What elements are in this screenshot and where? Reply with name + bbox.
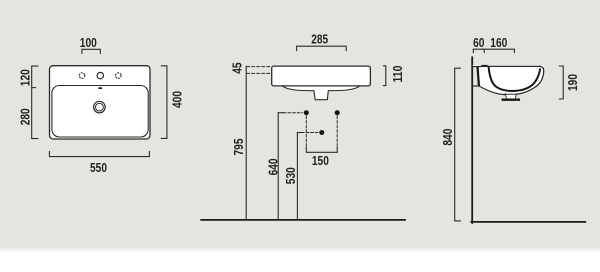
svg-text:110: 110 (390, 66, 405, 83)
dimension 60 label (473, 35, 484, 50)
dimension 120 label (18, 69, 33, 86)
dimension 640 label (265, 158, 280, 175)
side basin underside left (479, 86, 504, 95)
dimension 285 label (311, 32, 328, 47)
right fixing bolt (335, 110, 340, 115)
dimension 100 label (80, 35, 97, 50)
svg-text:550: 550 (90, 160, 107, 175)
dimension 530 label (283, 167, 298, 184)
dimension 550 bracket (49, 152, 149, 157)
dimension 150 label (312, 153, 329, 168)
dimension 150 bracket (306, 148, 337, 153)
dimension 280 label (18, 108, 33, 125)
svg-text:60: 60 (473, 35, 484, 50)
dimension 400 bracket (161, 66, 167, 139)
dashed lead to left bolt (284, 112, 303, 114)
svg-text:640: 640 (265, 158, 280, 175)
plan view inner bowl (52, 86, 148, 138)
side basin drain pipe (505, 94, 516, 98)
svg-text:285: 285 (311, 32, 328, 47)
dimension 120/280 bracket (32, 66, 38, 139)
svg-text:150: 150 (312, 153, 329, 168)
tap hole right (optional, dashed) (116, 73, 122, 79)
dashed drop lines from bolts (306, 116, 337, 147)
front basin body (272, 66, 371, 100)
wall line (471, 57, 473, 223)
plan view outer rim (50, 66, 151, 139)
tap hole center (97, 72, 103, 78)
dimension 795 label (231, 139, 246, 156)
svg-text:160: 160 (490, 35, 507, 50)
side basin deck line (472, 66, 481, 68)
svg-text:100: 100 (80, 35, 97, 50)
svg-text:795: 795 (231, 139, 246, 156)
dimension 285 bracket (297, 46, 347, 50)
dimension 60/160 bracket (473, 49, 514, 52)
dimension 110 bracket (383, 66, 385, 86)
tap hole left (optional, dashed) (79, 73, 85, 79)
dimension 795 line (245, 66, 247, 219)
side basin tap hole rim (481, 65, 487, 67)
dimension 550 label (90, 160, 107, 175)
drain point (319, 130, 324, 135)
dimension 190 bracket (559, 66, 563, 99)
svg-text:400: 400 (169, 91, 184, 108)
svg-text:120: 120 (18, 69, 33, 86)
side basin bottom ledge (472, 85, 479, 87)
dimension 840 label (440, 129, 455, 146)
side basin front apron outer (536, 66, 544, 86)
front view floor line (201, 219, 405, 221)
side basin top rim line (487, 65, 540, 67)
svg-text:190: 190 (565, 74, 580, 91)
drain inner circle (96, 103, 104, 111)
side basin bowl inner wall (489, 67, 540, 91)
svg-text:840: 840 (440, 129, 455, 146)
dimension 190 label (565, 74, 580, 91)
side basin drain flange line (504, 93, 517, 95)
extension dashes to wall line (247, 67, 272, 74)
dimension 45 label (230, 62, 245, 73)
side basin underside right (517, 86, 536, 94)
side view floor line (471, 221, 585, 223)
dimension 640 line (278, 113, 283, 220)
left fixing bolt (304, 110, 309, 115)
drain outer circle (94, 101, 106, 113)
dimension 110 label (390, 66, 405, 83)
dimension 100 bracket (82, 49, 100, 53)
dashed lead to drain point (302, 132, 319, 134)
overflow slot (98, 87, 102, 89)
dimension 530 line (297, 133, 301, 220)
dimension 160 label (490, 35, 507, 50)
svg-text:280: 280 (18, 108, 33, 125)
side basin rear inner wall (478, 68, 479, 85)
svg-text:530: 530 (283, 167, 298, 184)
side basin drain bottom lip (503, 99, 519, 101)
side basin silhouette (472, 65, 544, 99)
svg-text:45: 45 (230, 62, 245, 73)
dimension 400 label (169, 91, 184, 108)
dimension 840 line (455, 68, 461, 221)
